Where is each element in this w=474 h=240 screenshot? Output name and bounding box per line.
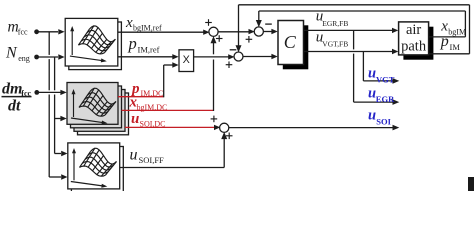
- svg-text:SOI: SOI: [376, 116, 391, 126]
- svg-text:bgIM,DC: bgIM,DC: [137, 103, 168, 112]
- svg-text:EGR,FB: EGR,FB: [322, 19, 348, 28]
- svg-text:EGR: EGR: [376, 94, 395, 104]
- svg-text:N: N: [5, 45, 18, 62]
- svg-text:u: u: [130, 147, 138, 164]
- svg-text:p: p: [440, 33, 449, 50]
- svg-text:SOI,FF: SOI,FF: [139, 155, 165, 165]
- svg-text:u: u: [368, 107, 376, 123]
- svg-text:u: u: [368, 65, 376, 81]
- svg-text:IM,DC: IM,DC: [141, 89, 164, 98]
- svg-text:dt: dt: [8, 98, 21, 115]
- svg-text:X: X: [183, 54, 190, 66]
- svg-text:C: C: [284, 32, 297, 52]
- svg-text:u: u: [131, 111, 139, 127]
- svg-text:p: p: [128, 34, 137, 53]
- svg-text:SOI,DC: SOI,DC: [140, 119, 166, 128]
- svg-text:fcc: fcc: [18, 28, 28, 37]
- svg-text:bgIM: bgIM: [448, 27, 466, 36]
- svg-text:IM,ref: IM,ref: [138, 45, 160, 55]
- svg-text:eng: eng: [18, 54, 30, 63]
- svg-text:air: air: [406, 22, 421, 38]
- svg-text:dm: dm: [2, 81, 22, 98]
- svg-text:VGT,FB: VGT,FB: [322, 40, 348, 49]
- svg-text:x: x: [125, 15, 133, 31]
- svg-text:bgIM,ref: bgIM,ref: [133, 24, 162, 33]
- svg-text:IM: IM: [450, 42, 461, 52]
- svg-text:path: path: [401, 38, 427, 54]
- svg-text:VGT: VGT: [376, 75, 395, 85]
